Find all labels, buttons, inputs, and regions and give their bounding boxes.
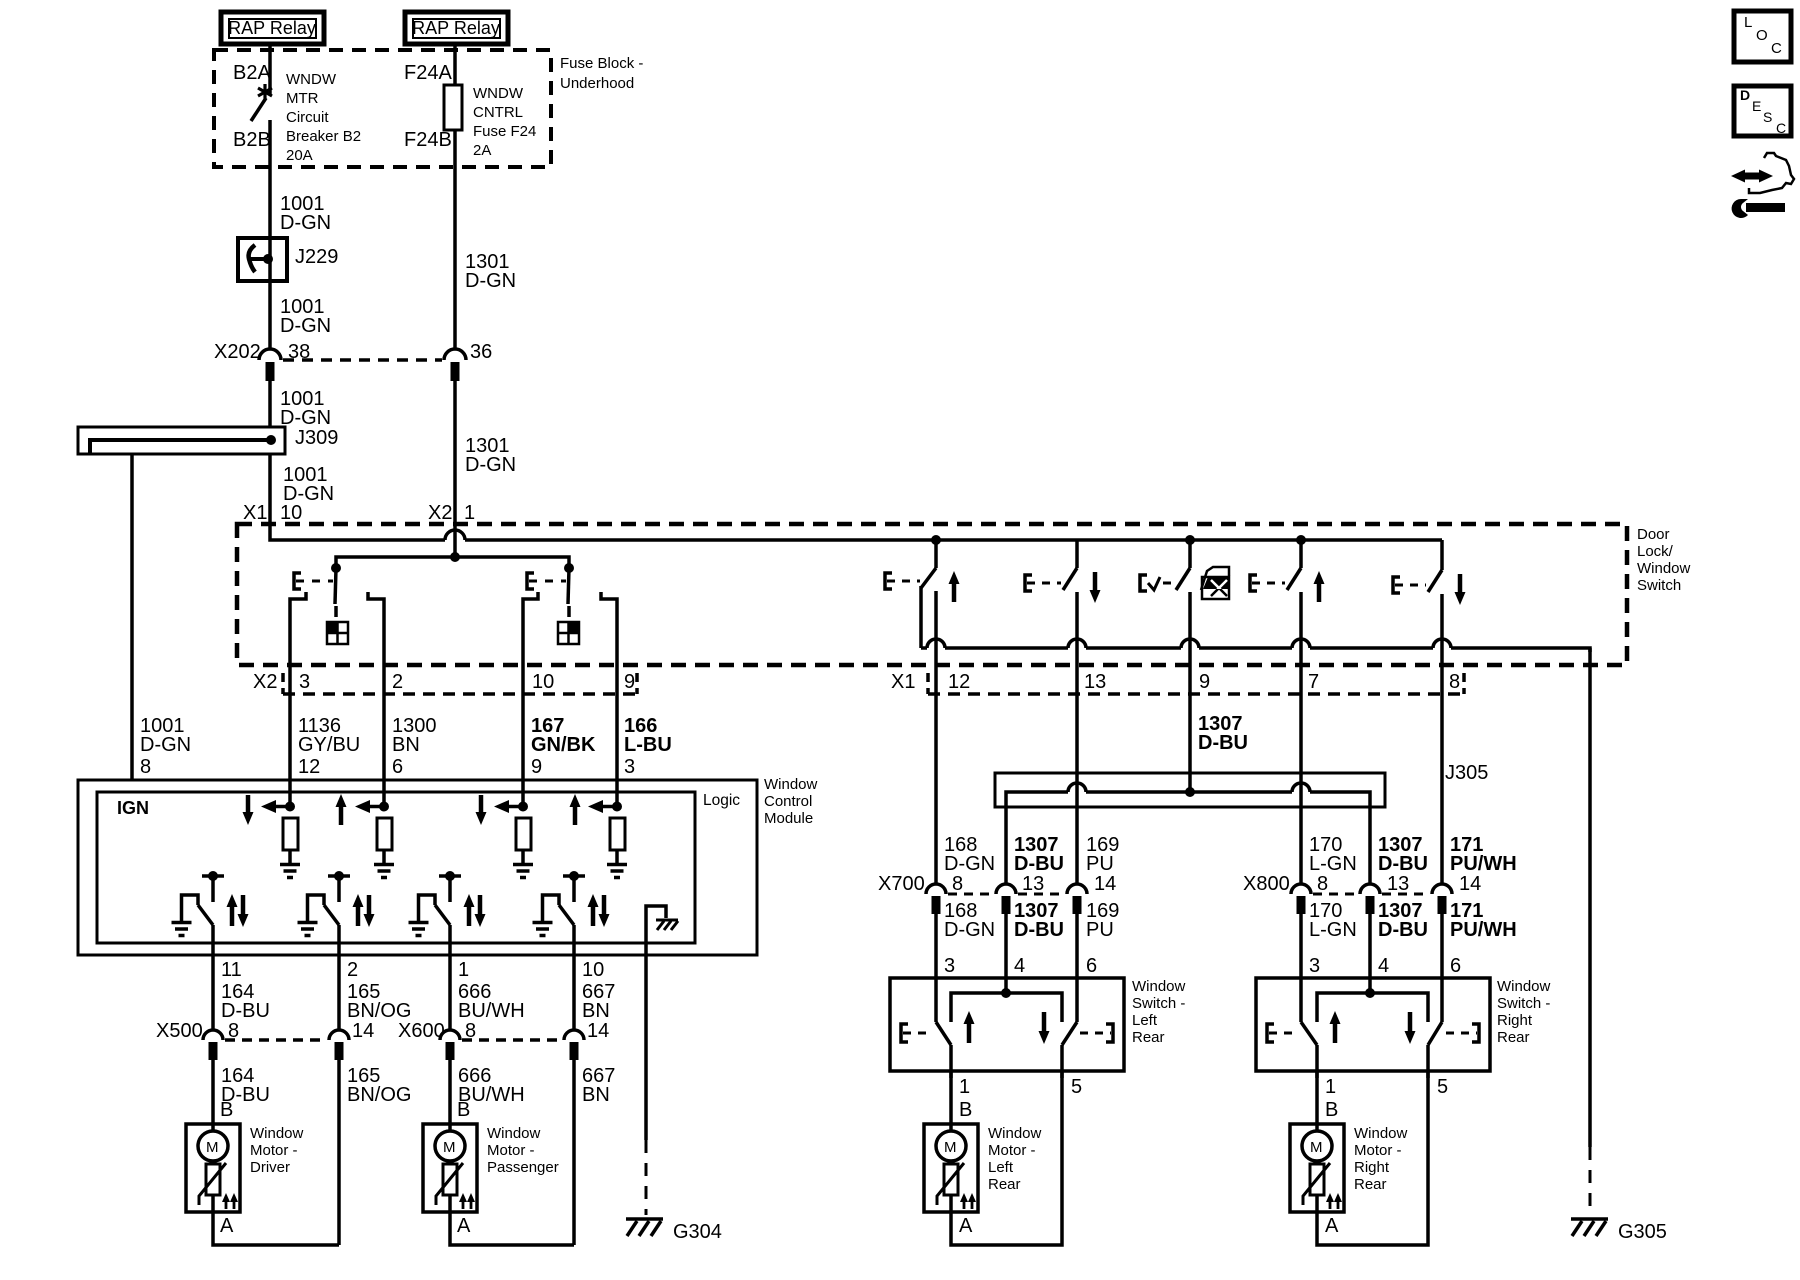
- svg-text:2: 2: [392, 671, 403, 693]
- svg-text:WNDW: WNDW: [473, 85, 524, 102]
- svg-text:36: 36: [470, 341, 492, 363]
- wire fuse F24 to X202 pin 36: [453, 130, 457, 350]
- wire label 169 PU (below X700): [1086, 900, 1119, 977]
- wire X2-3 to module pin 12: [288, 694, 292, 781]
- junction driver switch: [331, 563, 341, 573]
- junction passenger switch: [564, 563, 574, 573]
- svg-text:PU: PU: [1086, 919, 1114, 941]
- wire label 1001 D-GN (below J309): [283, 464, 334, 505]
- wire right rear motor A to switch pin 5: [1317, 1071, 1428, 1245]
- pull-up resistor col3: [516, 818, 531, 863]
- wire label 667 BN (above X600): [582, 981, 615, 1022]
- svg-text:X1: X1: [891, 671, 915, 693]
- wire X2-1 down to driver/passenger bus: [453, 524, 457, 557]
- splice J229: [238, 238, 338, 281]
- legend wrench icon: [1732, 199, 1785, 218]
- svg-text:Control: Control: [764, 793, 812, 810]
- wire module pin 1 to X600-8: [448, 956, 452, 1030]
- module passenger output switch (pin 2): [308, 871, 375, 956]
- wire X2-9 to module pin 3: [615, 694, 619, 781]
- wire from RAP Relay 1 to circuit breaker B2: [268, 44, 272, 95]
- wire label 171 PU/WH (below X800): [1450, 900, 1517, 977]
- svg-text:D-GN: D-GN: [944, 919, 995, 941]
- circuit breaker B2 (WNDW MTR 20A): [233, 62, 361, 164]
- ground (module driver switch): [172, 923, 192, 936]
- svg-text:8: 8: [1317, 873, 1328, 895]
- wire label 1301 D-GN (above door box): [465, 435, 516, 476]
- wire J305 to X800-13: [1368, 807, 1372, 884]
- svg-text:B: B: [220, 1099, 233, 1121]
- pull-up resistor col2: [377, 818, 392, 863]
- svg-text:Left: Left: [988, 1159, 1014, 1176]
- svg-text:Driver: Driver: [250, 1159, 290, 1176]
- driver/passenger switch bus: [336, 557, 569, 568]
- right rear switch internals: [1267, 978, 1479, 1078]
- svg-text:D-GN: D-GN: [465, 454, 516, 476]
- svg-text:M: M: [206, 1139, 219, 1156]
- ground (module col2): [374, 865, 394, 878]
- svg-text:BN: BN: [582, 1000, 610, 1022]
- svg-text:Window: Window: [487, 1125, 541, 1142]
- RAP Relay 2 box: [405, 12, 508, 44]
- svg-text:Lock/: Lock/: [1637, 543, 1674, 560]
- svg-text:Underhood: Underhood: [560, 75, 634, 92]
- svg-text:D-BU: D-BU: [1198, 732, 1248, 754]
- module left arrow col1: [261, 800, 295, 813]
- wire passenger motor A to X600-14 branch: [450, 1212, 574, 1245]
- wire label 171 PU/WH (above X800): [1450, 834, 1517, 875]
- junction lock switch A on feed bus: [931, 535, 941, 545]
- svg-text:Right: Right: [1497, 1012, 1533, 1029]
- wire label 165 BN/OG (below X500): [347, 1065, 411, 1106]
- svg-text:A: A: [457, 1215, 471, 1237]
- svg-text:1: 1: [458, 959, 469, 981]
- svg-text:Window: Window: [1497, 978, 1551, 995]
- svg-text:12: 12: [298, 756, 320, 778]
- svg-text:Breaker B2: Breaker B2: [286, 128, 361, 145]
- wire label 1001 D-GN (below fuse block): [280, 193, 331, 234]
- svg-text:X2: X2: [428, 502, 452, 524]
- wire label 1307 D-BU (below X800): [1378, 900, 1428, 977]
- wire X1-12 to X700-8: [934, 694, 938, 884]
- svg-text:6: 6: [1450, 955, 1461, 977]
- wire left rear switch pin 1 to motor B: [949, 1071, 953, 1132]
- svg-text:Door: Door: [1637, 526, 1670, 543]
- svg-text:10: 10: [532, 671, 554, 693]
- wire label 165 BN/OG (above X500): [347, 981, 411, 1022]
- wire label 666 BU/WH (above X600): [458, 981, 525, 1022]
- wire label 168 D-GN (above X700): [944, 834, 995, 875]
- svg-text:D-BU: D-BU: [221, 1000, 270, 1022]
- svg-text:X700: X700: [878, 873, 925, 895]
- svg-text:D-GN: D-GN: [140, 734, 191, 756]
- window motor - left rear: [924, 1124, 1042, 1212]
- svg-text:Window: Window: [250, 1125, 304, 1142]
- svg-text:3: 3: [1309, 955, 1320, 977]
- svg-text:6: 6: [1086, 955, 1097, 977]
- wire from RAP Relay 2 to fuse F24: [453, 44, 457, 85]
- svg-text:8: 8: [952, 873, 963, 895]
- window motor - passenger: [423, 1124, 559, 1212]
- wire X500-14 to driver motor A loop: [337, 1060, 341, 1245]
- wire X1-9 to J305 splice: [1188, 694, 1192, 792]
- svg-text:4: 4: [1014, 955, 1025, 977]
- svg-text:Window: Window: [1132, 978, 1186, 995]
- svg-text:Window: Window: [764, 776, 818, 793]
- svg-text:Switch -: Switch -: [1132, 995, 1185, 1012]
- svg-text:3: 3: [299, 671, 310, 693]
- ground (module col1): [280, 865, 300, 878]
- window switch - left rear box: [890, 978, 1186, 1071]
- module sense arrow down col3: [476, 795, 487, 825]
- svg-text:Motor -: Motor -: [1354, 1142, 1402, 1159]
- wire module chassis ground to G304 (dashed section): [644, 956, 648, 1215]
- ground G305: [1571, 1219, 1667, 1243]
- legend LOC box: [1734, 11, 1791, 62]
- svg-text:10: 10: [280, 502, 302, 524]
- svg-text:J309: J309: [295, 427, 338, 449]
- svg-text:Window: Window: [988, 1125, 1042, 1142]
- svg-text:M: M: [944, 1139, 957, 1156]
- svg-text:CNTRL: CNTRL: [473, 104, 523, 121]
- svg-text:Fuse Block -: Fuse Block -: [560, 55, 643, 72]
- svg-text:D-GN: D-GN: [280, 315, 331, 337]
- module left-rear output switch (pin 1): [419, 871, 486, 956]
- svg-text:F24B: F24B: [404, 129, 452, 151]
- connector X500: [156, 1020, 374, 1060]
- wire breaker B2 to X202 pin 38: [268, 120, 272, 350]
- wire label 1001 D-GN (module IGN feed): [140, 715, 191, 778]
- node X1 pin 10 label: [243, 502, 302, 524]
- wire label 166 L-BU: [624, 715, 672, 778]
- svg-text:C: C: [1771, 40, 1782, 57]
- pull-up resistor col1: [283, 818, 298, 863]
- wire X2-10 to module pin 9: [521, 694, 525, 781]
- svg-text:D-BU: D-BU: [1014, 853, 1064, 875]
- svg-text:GN/BK: GN/BK: [531, 734, 596, 756]
- wire X700-8 to left rear switch pin 3: [934, 914, 938, 978]
- svg-text:L-BU: L-BU: [624, 734, 672, 756]
- svg-text:J305: J305: [1445, 762, 1488, 784]
- svg-text:D-BU: D-BU: [1378, 853, 1428, 875]
- svg-text:J229: J229: [295, 246, 338, 268]
- svg-text:D-GN: D-GN: [944, 853, 995, 875]
- svg-text:L: L: [1744, 14, 1752, 31]
- Window Control Module box: [78, 776, 818, 955]
- fuse F24 (WNDW CNTRL 2A): [404, 62, 536, 159]
- svg-text:14: 14: [1094, 873, 1116, 895]
- ground G304: [626, 1219, 722, 1243]
- ground (module col4): [607, 865, 627, 878]
- svg-text:D-BU: D-BU: [1378, 919, 1428, 941]
- svg-text:X2: X2: [253, 671, 277, 693]
- svg-text:WNDW: WNDW: [286, 71, 337, 88]
- svg-text:GY/BU: GY/BU: [298, 734, 360, 756]
- driver window switch (in door box): [290, 568, 384, 694]
- svg-text:D: D: [1740, 87, 1750, 103]
- wire J309 branch to module pin 8: [130, 454, 134, 781]
- wire X800-13 to right rear switch pin 4: [1368, 914, 1372, 978]
- node X2 pin 1 label: [428, 502, 475, 524]
- svg-text:B: B: [959, 1099, 972, 1121]
- wire label 1301 D-GN (above X202): [465, 251, 516, 292]
- left rear switch internals: [901, 978, 1113, 1078]
- svg-text:Rear: Rear: [988, 1176, 1021, 1193]
- connector X800: [1243, 873, 1481, 914]
- svg-text:8: 8: [1449, 671, 1460, 693]
- svg-text:Fuse F24: Fuse F24: [473, 123, 536, 140]
- wire X500-8 to driver motor B: [211, 1060, 215, 1132]
- svg-text:6: 6: [392, 756, 403, 778]
- svg-text:BU/WH: BU/WH: [458, 1000, 525, 1022]
- wire J305 to X700-13: [1004, 807, 1008, 884]
- wire X800-8 to right rear switch pin 3: [1299, 914, 1303, 978]
- svg-text:X600: X600: [398, 1020, 445, 1042]
- svg-text:B: B: [1325, 1099, 1338, 1121]
- svg-text:X800: X800: [1243, 873, 1290, 895]
- svg-text:5: 5: [1437, 1076, 1448, 1098]
- svg-text:Window: Window: [1354, 1125, 1408, 1142]
- wire module pin 11 to X500-8: [211, 956, 215, 1030]
- driver window icon (quad, top-left filled): [327, 622, 348, 644]
- pull-up resistor col4: [610, 818, 625, 863]
- svg-text:14: 14: [587, 1020, 609, 1042]
- switch D (window up, right): [1250, 540, 1325, 694]
- svg-text:Rear: Rear: [1132, 1029, 1165, 1046]
- svg-text:A: A: [220, 1215, 234, 1237]
- svg-text:L-GN: L-GN: [1309, 853, 1357, 875]
- express-down switch C: [1140, 540, 1190, 694]
- wire X2-2 to module pin 6: [382, 694, 386, 781]
- ground (module passenger switch): [298, 923, 318, 936]
- module input stubs to resistor dots: [288, 781, 292, 807]
- svg-text:RAP Relay: RAP Relay: [228, 18, 316, 38]
- svg-text:M: M: [1310, 1139, 1323, 1156]
- legend car icon with double arrow: [1731, 153, 1794, 193]
- express window icon: [1201, 567, 1229, 599]
- svg-text:Motor -: Motor -: [487, 1142, 535, 1159]
- svg-text:F24A: F24A: [404, 62, 452, 84]
- wire X202-36 to door box X2 pin 1: [453, 381, 457, 526]
- wire X700-14 to left rear switch pin 6: [1075, 914, 1079, 978]
- wire label 164 D-BU (above X500): [221, 981, 270, 1022]
- svg-text:12: 12: [948, 671, 970, 693]
- wire X1-7 through J305 to X800-8: [1299, 694, 1303, 884]
- svg-text:11: 11: [221, 959, 242, 981]
- ground (module left-rear switch): [409, 923, 429, 936]
- svg-text:X202: X202: [214, 341, 261, 363]
- wire to G305 (dashed section): [1589, 1147, 1592, 1215]
- wire label 1307 D-BU (main feed): [1198, 713, 1248, 754]
- svg-text:PU: PU: [1086, 853, 1114, 875]
- svg-text:Circuit: Circuit: [286, 109, 329, 126]
- svg-text:Rear: Rear: [1354, 1176, 1387, 1193]
- module left arrow col3: [494, 800, 528, 813]
- svg-text:5: 5: [1071, 1076, 1082, 1098]
- passenger window switch (in door box): [523, 568, 617, 694]
- wire label 167 GN/BK: [531, 715, 596, 778]
- wire J309 to door box X1 pin 10: [268, 454, 272, 526]
- connector X700: [878, 873, 1116, 914]
- svg-text:Logic: Logic: [703, 792, 740, 809]
- module internal chassis ground to G304: [646, 906, 678, 956]
- svg-text:1: 1: [464, 502, 475, 524]
- wire label 1307 D-BU (above X700): [1014, 834, 1064, 875]
- ground (module col3): [513, 865, 533, 878]
- svg-text:D-GN: D-GN: [465, 270, 516, 292]
- svg-text:C: C: [1776, 120, 1786, 136]
- junction bus center: [450, 552, 460, 562]
- wire label 170 L-GN (below X800): [1309, 900, 1357, 977]
- svg-text:Motor -: Motor -: [988, 1142, 1036, 1159]
- passenger window icon (quad, top-right filled): [558, 622, 579, 644]
- wire X600-14 to passenger motor A loop: [572, 1060, 576, 1245]
- svg-text:Passenger: Passenger: [487, 1159, 559, 1176]
- module driver output switch (pin 11): [182, 871, 249, 956]
- svg-text:4: 4: [1378, 955, 1389, 977]
- svg-text:A: A: [959, 1215, 973, 1237]
- svg-text:3: 3: [944, 955, 955, 977]
- connector X1 strip (door box to harness): [891, 671, 1464, 694]
- window motor - right rear: [1290, 1124, 1408, 1212]
- svg-text:Motor -: Motor -: [250, 1142, 298, 1159]
- wire door switch common to G305: [1588, 648, 1592, 1147]
- svg-text:M: M: [443, 1139, 456, 1156]
- module sense arrow up col2: [336, 794, 347, 825]
- svg-text:BN: BN: [582, 1084, 610, 1106]
- wire label 1001 D-GN (below X202): [280, 388, 331, 429]
- svg-text:14: 14: [352, 1020, 374, 1042]
- Fuse Block - Underhood dashed box: [214, 50, 643, 167]
- svg-text:MTR: MTR: [286, 90, 319, 107]
- module right-rear output switch (pin 10): [543, 871, 610, 956]
- svg-text:Rear: Rear: [1497, 1029, 1530, 1046]
- svg-text:X1: X1: [243, 502, 267, 524]
- svg-text:B: B: [457, 1099, 470, 1121]
- legend DESC box: [1734, 86, 1791, 136]
- connector X2 strip (door box to harness): [253, 671, 637, 694]
- svg-text:Switch: Switch: [1637, 577, 1681, 594]
- junction switch D on feed bus: [1296, 535, 1306, 545]
- wire module pin 2 to X500-14: [337, 956, 341, 1030]
- svg-text:Window: Window: [1637, 560, 1691, 577]
- wire label 1307 D-BU (below X700): [1014, 900, 1064, 977]
- wire label 667 BN (below X600): [582, 1065, 615, 1106]
- wire X1-8 to X800-14: [1440, 694, 1444, 884]
- svg-text:BN/OG: BN/OG: [347, 1084, 411, 1106]
- splice pack J309: [78, 427, 338, 454]
- svg-text:1: 1: [1325, 1076, 1336, 1098]
- svg-text:13: 13: [1084, 671, 1106, 693]
- wire label 1300 BN: [392, 715, 437, 778]
- svg-text:Left: Left: [1132, 1012, 1158, 1029]
- wire label 169 PU (above X700): [1086, 834, 1119, 875]
- svg-text:A: A: [1325, 1215, 1339, 1237]
- svg-text:BN/OG: BN/OG: [347, 1000, 411, 1022]
- wire X700-13 to left rear switch pin 4: [1004, 914, 1008, 978]
- svg-text:2: 2: [347, 959, 358, 981]
- svg-text:1: 1: [959, 1076, 970, 1098]
- wire label 666 BU/WH (below X600): [458, 1065, 525, 1106]
- svg-text:IGN: IGN: [117, 798, 149, 818]
- svg-text:3: 3: [624, 756, 635, 778]
- wire X1-13 through J305 to X700-14: [1075, 694, 1079, 884]
- svg-text:9: 9: [531, 756, 542, 778]
- svg-text:13: 13: [1387, 873, 1409, 895]
- wire module pin 10 to X600-14: [572, 956, 576, 1030]
- svg-text:BN: BN: [392, 734, 420, 756]
- module sense arrow down col1: [243, 795, 254, 825]
- inline connector X202: [214, 341, 492, 381]
- junction express switch C on feed bus: [1185, 535, 1195, 545]
- svg-text:20A: 20A: [286, 147, 313, 164]
- wire 1001 feed bus inside door box (hops over X2-1 wire at x=455): [270, 524, 1442, 540]
- window switch - right rear box: [1256, 978, 1551, 1071]
- window motor - driver: [186, 1124, 304, 1212]
- connector X600: [398, 1020, 609, 1060]
- svg-text:7: 7: [1308, 671, 1319, 693]
- wire label 168 D-GN (below X700): [944, 900, 995, 977]
- svg-text:B2A: B2A: [233, 62, 271, 84]
- svg-text:PU/WH: PU/WH: [1450, 919, 1517, 941]
- Door Lock/Window Switch dashed box: [237, 524, 1691, 665]
- wire X600-8 to passenger motor B: [448, 1060, 452, 1132]
- splice pack J305: [995, 762, 1488, 807]
- svg-text:Right: Right: [1354, 1159, 1390, 1176]
- wire driver motor A to X500-14 branch: [213, 1212, 339, 1245]
- svg-text:10: 10: [582, 959, 604, 981]
- svg-text:9: 9: [624, 671, 635, 693]
- svg-text:D-GN: D-GN: [280, 407, 331, 429]
- wire label 1136 GY/BU: [298, 715, 360, 778]
- svg-text:B2B: B2B: [233, 129, 271, 151]
- wire left rear motor A to switch pin 5: [951, 1071, 1062, 1245]
- svg-text:Switch -: Switch -: [1497, 995, 1550, 1012]
- svg-text:8: 8: [140, 756, 151, 778]
- wire X202-38 to J309: [268, 381, 272, 427]
- svg-text:D-BU: D-BU: [1014, 919, 1064, 941]
- module sense arrow up col4: [570, 794, 581, 825]
- wire label 1307 D-BU (above X800): [1378, 834, 1428, 875]
- module left arrow col2: [355, 800, 389, 813]
- svg-text:PU/WH: PU/WH: [1450, 853, 1517, 875]
- svg-text:O: O: [1756, 27, 1768, 44]
- svg-text:S: S: [1763, 109, 1772, 125]
- svg-text:RAP Relay: RAP Relay: [412, 18, 500, 38]
- wire X800-14 to right rear switch pin 6: [1440, 914, 1444, 978]
- svg-text:D-GN: D-GN: [280, 212, 331, 234]
- svg-text:G305: G305: [1618, 1221, 1667, 1243]
- svg-text:9: 9: [1199, 671, 1210, 693]
- svg-text:2A: 2A: [473, 142, 491, 159]
- module left arrow col4: [588, 800, 622, 813]
- svg-text:14: 14: [1459, 873, 1481, 895]
- svg-text:L-GN: L-GN: [1309, 919, 1357, 941]
- ground (module right-rear switch): [533, 923, 553, 936]
- RAP Relay 1 box: [221, 12, 324, 44]
- svg-text:13: 13: [1022, 873, 1044, 895]
- svg-text:Module: Module: [764, 810, 813, 827]
- svg-text:X500: X500: [156, 1020, 203, 1042]
- svg-text:G304: G304: [673, 1221, 722, 1243]
- wire label 170 L-GN (above X800): [1309, 834, 1357, 875]
- wire right rear switch pin 1 to motor B: [1315, 1071, 1319, 1132]
- switch B (window down): [1025, 541, 1101, 694]
- wire label 1001 D-GN (below J229): [280, 296, 331, 337]
- svg-text:E: E: [1752, 98, 1761, 114]
- switch E (window down, right end): [1393, 540, 1466, 694]
- switch common bus to ground (hops over output wires): [921, 639, 1590, 652]
